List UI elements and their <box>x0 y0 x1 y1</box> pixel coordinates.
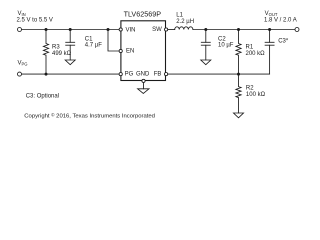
wire FB net <box>168 73 270 75</box>
pin EN <box>119 49 122 52</box>
pin FB <box>165 73 168 76</box>
IC U1 TLV62569P buck converter <box>121 21 166 81</box>
wire SW to inductor <box>168 29 175 31</box>
svg-text:200 kΩ: 200 kΩ <box>246 51 266 57</box>
terminal VOUT <box>295 28 299 32</box>
svg-text:C3*: C3* <box>278 38 289 44</box>
svg-text:2.2 µH: 2.2 µH <box>176 19 194 25</box>
capacitor C1 <box>66 30 75 61</box>
ground (below GND pin) <box>138 89 149 94</box>
terminal VIN <box>18 28 22 32</box>
wire VPG line <box>21 73 119 75</box>
node C1 top <box>69 28 72 31</box>
node C2 top <box>204 28 207 31</box>
ground (below R2) <box>234 113 244 118</box>
resistor R3 <box>43 30 48 75</box>
svg-text:4.7 µF: 4.7 µF <box>85 43 102 49</box>
terminal and pin circles <box>18 28 300 83</box>
pin VIN <box>119 28 122 31</box>
svg-text:GND: GND <box>136 72 150 78</box>
capacitor C2 <box>201 30 210 61</box>
svg-text:FB: FB <box>154 72 162 78</box>
svg-text:R1: R1 <box>246 45 254 51</box>
wire GND pin <box>143 83 145 89</box>
inductor L1 <box>175 27 193 30</box>
svg-text:VPG: VPG <box>18 61 28 67</box>
ground (below C2) <box>201 60 211 65</box>
svg-text:SW: SW <box>152 27 162 33</box>
wire EN connection <box>108 30 119 52</box>
wire VOUT rail <box>193 29 295 31</box>
node R3 top <box>45 28 48 31</box>
svg-text:VOUT: VOUT <box>265 11 278 17</box>
svg-text:C3: Optional: C3: Optional <box>26 93 59 99</box>
pin GND <box>142 79 145 82</box>
svg-text:PG: PG <box>125 72 134 78</box>
node FB divider <box>237 73 240 76</box>
svg-text:2.5 V to 5.5 V: 2.5 V to 5.5 V <box>17 18 53 24</box>
svg-text:L1: L1 <box>176 13 183 19</box>
node EN tap <box>107 28 110 31</box>
svg-text:10 µF: 10 µF <box>218 43 234 49</box>
node C3 top <box>268 28 271 31</box>
svg-text:TLV62569P: TLV62569P <box>124 9 162 18</box>
svg-text:C2: C2 <box>218 37 226 43</box>
svg-text:EN: EN <box>126 48 134 54</box>
svg-text:VIN: VIN <box>18 11 26 17</box>
svg-text:R2: R2 <box>246 86 254 92</box>
node R1 top <box>237 28 240 31</box>
svg-text:C1: C1 <box>85 37 93 43</box>
ground (below C1) <box>65 60 75 65</box>
resistor R1 <box>236 30 241 75</box>
wire VIN rail <box>21 29 119 31</box>
svg-text:R3: R3 <box>52 45 60 51</box>
terminal VPG <box>18 72 22 76</box>
svg-text:100 kΩ: 100 kΩ <box>246 92 266 98</box>
svg-text:Copyright © 2016, Texas Instru: Copyright © 2016, Texas Instruments Inco… <box>24 112 155 120</box>
node R3/VPG <box>45 73 48 76</box>
node junction dots <box>45 28 272 76</box>
pin PG <box>119 73 122 76</box>
pin SW <box>165 28 168 31</box>
capacitor C3 <box>265 30 274 75</box>
svg-text:1.8 V / 2.0 A: 1.8 V / 2.0 A <box>264 18 297 24</box>
svg-text:499 kΩ: 499 kΩ <box>52 51 72 57</box>
svg-text:VIN: VIN <box>126 27 136 33</box>
resistor R2 <box>236 74 241 113</box>
